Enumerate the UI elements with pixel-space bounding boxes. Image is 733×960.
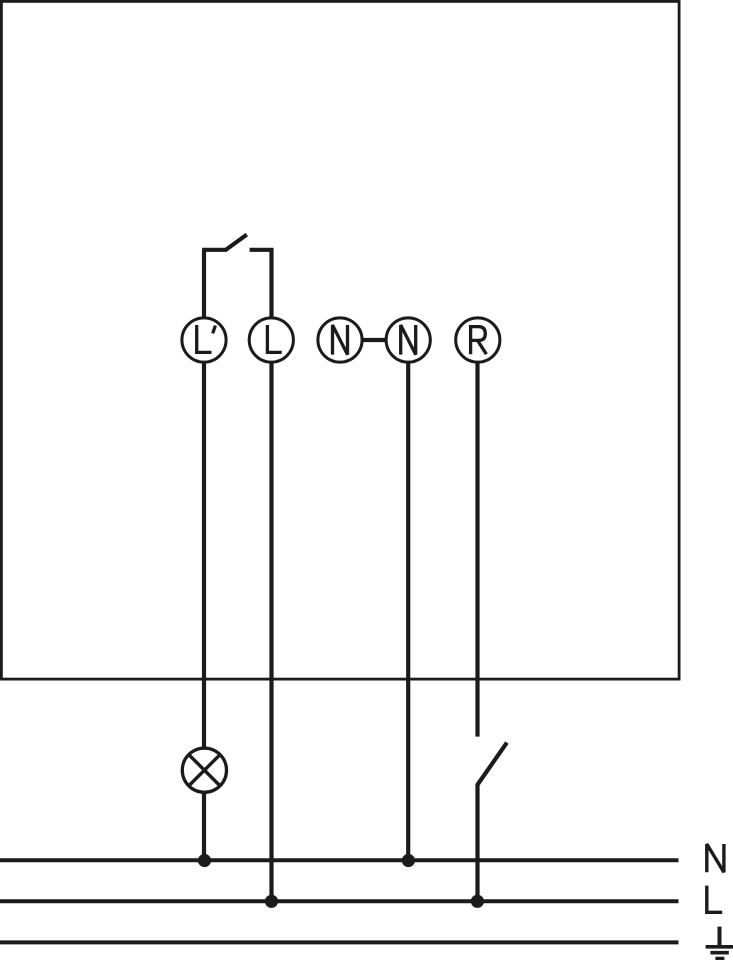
terminal L bbox=[249, 318, 293, 362]
wire: R terminal down to external switch bbox=[475, 362, 479, 736]
wire: N2 terminal down to N bus bbox=[406, 362, 410, 860]
wire: L' terminal down to lamp bbox=[202, 362, 206, 748]
bus line L bbox=[0, 899, 679, 903]
terminal N1 bbox=[318, 318, 362, 362]
lamp cross stroke 1 bbox=[189, 755, 220, 786]
lamp E1 (load) bbox=[182, 748, 226, 792]
junction: lamp line to N bus bbox=[198, 854, 211, 867]
wire: external switch down to L bus bbox=[475, 784, 479, 901]
wire: L' terminal up to internal switch bbox=[202, 251, 206, 318]
ground symbol (PE) bbox=[706, 927, 733, 959]
wire: link between N terminals bbox=[362, 338, 386, 342]
bus line PE bbox=[0, 940, 679, 944]
label R bbox=[471, 327, 487, 355]
label N1 bbox=[333, 325, 348, 355]
wire: L terminal up to internal switch bbox=[269, 248, 273, 318]
wire: lamp down to N bus bbox=[202, 792, 206, 860]
lamp cross stroke 2 bbox=[189, 755, 220, 786]
external switch blade (open) bbox=[477, 743, 507, 785]
wire: internal switch right horizontal bbox=[250, 248, 274, 252]
junction: N2 line to N bus bbox=[402, 854, 415, 867]
wire: internal switch left horizontal bbox=[202, 248, 226, 252]
device outline (timer/sensor enclosure) bbox=[1, 1, 679, 679]
bus line N bbox=[0, 858, 679, 862]
net label N bbox=[707, 844, 724, 872]
terminal R bbox=[456, 318, 500, 362]
terminal N2 bbox=[386, 318, 430, 362]
label L bbox=[267, 325, 281, 352]
label L' bbox=[197, 325, 216, 352]
junction: switch line to L bus bbox=[471, 895, 484, 908]
net label L bbox=[707, 886, 722, 913]
wire: L terminal down to L bus bbox=[269, 362, 273, 901]
terminal L' bbox=[182, 318, 226, 362]
label N2 bbox=[401, 325, 416, 355]
junction: L line to L bus bbox=[265, 895, 278, 908]
internal relay switch blade (open) bbox=[225, 235, 247, 251]
